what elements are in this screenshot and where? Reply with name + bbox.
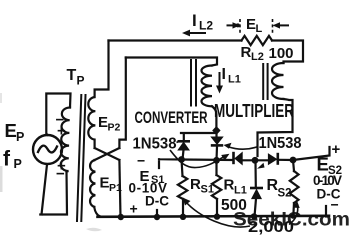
svg-text:E: E: [100, 174, 110, 191]
svg-text:L2: L2: [199, 19, 213, 33]
wire crossover to bottom rail: [119, 160, 120, 217]
scan smudge bottom left: [86, 228, 102, 232]
svg-text:CONVERTER: CONVERTER: [135, 109, 208, 127]
label fP: [3, 148, 22, 172]
label IL1 with arrow: [216, 66, 241, 94]
junction node converter output: [212, 126, 220, 135]
svg-text:T: T: [67, 67, 77, 84]
label TP: [67, 67, 85, 88]
diode D5 1N538: [250, 188, 263, 199]
junction node RS2 bottom rail: [290, 214, 295, 219]
converter winding: [202, 66, 212, 107]
label 2,000 with pointers: [183, 198, 300, 237]
label RL1: [224, 177, 247, 197]
svg-text:P2: P2: [108, 122, 121, 134]
svg-text:R: R: [190, 176, 201, 193]
svg-text:R: R: [224, 177, 235, 194]
ES2 minus terminal stub: [325, 206, 327, 217]
pointer 1N538 left to D1: [177, 141, 181, 143]
diode D2 1N538: [211, 133, 223, 160]
label RL2 100: [241, 44, 294, 63]
svg-text:MULTIPLIER: MULTIPLIER: [214, 101, 294, 121]
svg-text:L1: L1: [228, 74, 241, 86]
ES1 plus terminal stub: [156, 210, 158, 217]
wire inner box left: [119, 58, 125, 149]
resistor RL1: [212, 175, 221, 199]
svg-text:E: E: [5, 120, 17, 141]
label EP2: [98, 114, 121, 134]
svg-text:L1: L1: [234, 185, 247, 197]
svg-text:D-C: D-C: [145, 194, 169, 209]
svg-text:I: I: [192, 11, 197, 30]
svg-text:1N538: 1N538: [133, 136, 177, 153]
junction node RL1 top: [213, 157, 220, 164]
junction node ES1 plus rail: [154, 214, 160, 220]
label ES2 group: [313, 141, 342, 213]
label EP1: [100, 174, 123, 194]
scan smudge left mid: [0, 93, 2, 103]
svg-text:I: I: [222, 66, 226, 83]
wire top loop left vertical: [95, 41, 109, 98]
diode D1 1N538: [178, 133, 191, 160]
resistor RS2: [293, 160, 294, 171]
wire RS1 branch: [182, 160, 183, 177]
secondary winding EP1: [90, 160, 95, 207]
svg-text:P: P: [14, 157, 22, 171]
svg-text:−: −: [56, 166, 65, 183]
label EP: [5, 120, 25, 144]
wire D1 top link: [181, 132, 216, 134]
svg-text:100: 100: [269, 45, 294, 62]
junction node D3 D5: [252, 157, 259, 164]
svg-text:P: P: [16, 130, 24, 144]
pointer 1N538 right to D2: [224, 143, 259, 149]
secondary winding EP2: [88, 97, 95, 140]
junction node D5 bottom rail: [251, 213, 257, 219]
svg-text:f: f: [3, 148, 11, 171]
svg-text:S2: S2: [278, 188, 292, 200]
svg-text:R: R: [241, 44, 252, 61]
label primary polarity bottom: [56, 158, 66, 183]
svg-text:S1: S1: [201, 184, 214, 196]
junction node EP1 bottom rail: [118, 214, 124, 220]
junction node ES1 top: [178, 156, 185, 163]
wire ES1 terminal: [159, 159, 182, 168]
wire inner box top: [126, 58, 217, 66]
svg-text:+: +: [130, 201, 138, 217]
label primary polarity top: [56, 112, 67, 140]
svg-text:E: E: [98, 114, 108, 131]
wire converter winding to node: [212, 106, 216, 127]
svg-text:L: L: [256, 23, 263, 35]
label RS2: [267, 177, 292, 200]
diode D4 1N538: [268, 153, 277, 165]
wire EP2 bottom to crossover: [93, 140, 95, 148]
pointer 1N538 right to D5 wire: [257, 163, 265, 169]
svg-text:P1: P1: [109, 182, 122, 194]
resistor RL2: [242, 36, 273, 45]
crossover X: [95, 148, 120, 160]
wire multiplier bottom right drop: [258, 99, 293, 156]
label ES1 group: [129, 153, 170, 217]
diode D3 1N538: [234, 152, 243, 165]
label RS1: [190, 176, 214, 196]
pointer 1N538 left to D3: [170, 150, 230, 168]
svg-text:1N538: 1N538: [259, 135, 302, 152]
ground rail bottom: [98, 216, 330, 217]
svg-text:−: −: [137, 153, 145, 169]
svg-text:E: E: [317, 153, 329, 174]
resistor RS1: [178, 176, 187, 199]
svg-text:E: E: [246, 16, 256, 33]
transformer TP core: [77, 95, 86, 221]
multiplier winding: [272, 63, 284, 99]
wire RL1 branch: [215, 160, 217, 175]
label IL2 with arrow: [182, 11, 213, 36]
wire D5 branch: [254, 162, 257, 187]
junction node RL1 bottom rail: [214, 213, 220, 219]
svg-text:P: P: [77, 74, 85, 88]
label EL with dimension arrows: [227, 16, 290, 35]
wire top right: [272, 41, 303, 64]
junction node RS2 top: [290, 157, 297, 164]
wire top horizontal I_L2 rail: [109, 39, 242, 41]
wire EP1 bottom to ground rail: [94, 208, 100, 217]
svg-text:+: +: [57, 123, 66, 140]
scan smudge left edge: [0, 166, 3, 192]
multiplier core: [263, 64, 267, 99]
wire rail mid horizontal: [182, 158, 233, 161]
svg-text:+: +: [332, 141, 341, 158]
svg-text:L2: L2: [251, 51, 264, 63]
primary winding of TP: [61, 107, 70, 171]
converter core: [191, 60, 196, 106]
AC source E_P: [33, 135, 62, 164]
svg-text:SeekIC.com: SeekIC.com: [233, 209, 350, 231]
junction node RS1 bottom rail: [180, 214, 186, 220]
wire primary loop: [46, 94, 70, 136]
